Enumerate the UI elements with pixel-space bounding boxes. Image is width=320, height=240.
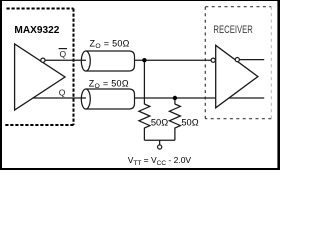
svg-text:50Ω: 50Ω — [151, 117, 168, 127]
svg-text:MAX9322: MAX9322 — [14, 25, 59, 36]
svg-text:50Ω: 50Ω — [181, 117, 198, 127]
svg-text:Q: Q — [59, 87, 66, 97]
svg-text:Q: Q — [60, 49, 67, 59]
svg-text:RECEIVER: RECEIVER — [213, 24, 253, 36]
